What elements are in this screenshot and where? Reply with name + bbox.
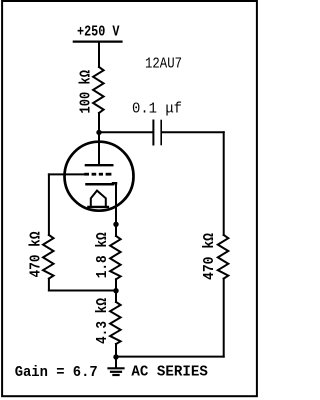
svg-text:100 kΩ: 100 kΩ [78, 70, 95, 114]
svg-text:0.1 μf: 0.1 μf [132, 101, 182, 118]
svg-text:470 kΩ: 470 kΩ [201, 233, 218, 280]
svg-text:+250 V: +250 V [77, 24, 120, 41]
svg-text:1.8 kΩ: 1.8 kΩ [94, 232, 111, 278]
svg-text:AC SERIES: AC SERIES [131, 364, 208, 381]
svg-text:12AU7: 12AU7 [145, 56, 182, 73]
svg-text:4.3 kΩ: 4.3 kΩ [94, 298, 111, 344]
svg-text:Gain = 6.7: Gain = 6.7 [15, 364, 98, 381]
svg-text:470 kΩ: 470 kΩ [28, 232, 45, 278]
